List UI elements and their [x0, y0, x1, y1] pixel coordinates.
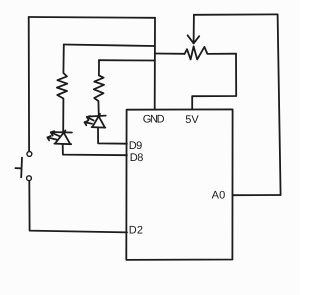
svg-text:GND: GND: [143, 114, 165, 126]
svg-text:D9: D9: [129, 140, 142, 152]
svg-text:A0: A0: [212, 190, 226, 202]
svg-text:D2: D2: [129, 225, 143, 237]
svg-text:D8: D8: [130, 152, 144, 164]
svg-text:5V: 5V: [185, 114, 199, 126]
